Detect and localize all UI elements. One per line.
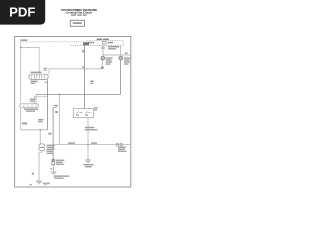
ground label — [43, 183, 50, 185]
ground G102 — [36, 180, 42, 182]
thermal switch drop — [39, 130, 41, 144]
wire label tick — [32, 173, 34, 175]
a/c switch (center bottom) — [52, 160, 55, 165]
fuse label left — [88, 42, 94, 44]
pin label right of oval1 — [44, 68, 47, 69]
connector labels below — [118, 147, 126, 148]
wire V1 (left feed) — [20, 42, 22, 104]
underhood fuse block (dashed box) — [87, 41, 124, 46]
relay label right — [94, 107, 97, 108]
ground label — [53, 175, 69, 176]
wire label on V1b — [22, 122, 27, 124]
wire labels above H5 — [68, 142, 75, 143]
page number — [30, 184, 32, 186]
motor M1 labels — [106, 57, 113, 58]
relay box — [73, 109, 93, 118]
fuse F inside block — [102, 42, 106, 44]
connector mark on M1 feed — [102, 47, 104, 49]
wire labels left of V_dark1 — [38, 119, 43, 120]
motor M1 — [101, 56, 105, 60]
wire V1 below oval2 — [21, 108, 48, 130]
underhood fuse block label — [97, 39, 102, 41]
connector oval1 — [29, 74, 48, 79]
junction node H2/V3 — [59, 94, 61, 96]
junction node H5/ground drop — [87, 144, 89, 146]
connector C2 on M1 drop — [101, 67, 104, 69]
wire label left of V3 — [55, 111, 57, 113]
wire V_dark2 — [52, 107, 54, 160]
motor M2 labels — [124, 57, 131, 58]
oval1 label below — [31, 81, 38, 83]
wire M2 drop — [120, 60, 122, 94]
wire pair into oval2 from V_dark1 — [34, 97, 47, 104]
connector C1 label above oval1 — [31, 72, 42, 74]
wire V3 — [58, 94, 60, 144]
motor M2 feed — [120, 46, 122, 57]
ground G103 — [51, 171, 57, 173]
wire label on V4 — [82, 50, 84, 52]
ground drop from H5 — [87, 145, 89, 160]
hot-in-run dashed bus segment — [70, 44, 87, 46]
wire M1 down to connector — [101, 60, 103, 66]
wire label right of V4 — [90, 81, 94, 82]
PDF badge — [0, 0, 45, 25]
wire down from a/c switch — [53, 165, 55, 172]
title line 3: model year note — [71, 14, 76, 16]
wire H2 — [36, 93, 121, 95]
oval2 label below — [24, 109, 38, 110]
junction node on H4 — [39, 129, 41, 131]
connector oval2 — [20, 104, 39, 108]
oval2 label above — [30, 99, 35, 100]
ground label — [83, 164, 93, 165]
ground G104 — [85, 159, 91, 161]
diagram frame — [15, 37, 131, 188]
motor M2 — [119, 56, 123, 60]
hot-at-all-times label — [20, 39, 27, 41]
label right of M1 feed — [108, 46, 119, 47]
wire V4 (feed to relay) — [84, 43, 86, 109]
junction node on V1 — [20, 47, 22, 49]
inline connector on H5 — [116, 143, 118, 146]
svg-text:Cooling Fan Circuit: Cooling Fan Circuit — [66, 11, 92, 15]
wire label on V_dark2 — [48, 133, 51, 135]
wire V_dark1 — [47, 79, 49, 130]
ground wire from thermal switch — [39, 151, 42, 181]
a/c switch labels — [56, 160, 65, 161]
wire corner H2 to oval2 — [35, 94, 37, 103]
connector label near right frame — [125, 53, 128, 55]
motor rail wire — [103, 54, 131, 56]
stub at V_dark2 top — [53, 106, 57, 108]
thermal switch labels — [47, 145, 55, 146]
info box — [70, 20, 84, 26]
svg-text:PDF: PDF — [9, 4, 35, 19]
wire H5 — [53, 144, 131, 146]
fuse drop to motor M1 — [102, 46, 104, 57]
wire H1 (oval1 to motor M1) — [49, 69, 101, 74]
connector label under relay drop — [85, 127, 94, 128]
relay internal contacts — [77, 112, 79, 114]
thermal switch S1 — [39, 144, 45, 148]
hot bus dashed wire — [21, 41, 87, 43]
relay pin drop — [87, 118, 89, 145]
fuse label right — [108, 42, 114, 44]
fusible link at top of V4 — [83, 42, 89, 45]
wire jog V1 to V2 — [21, 47, 40, 74]
